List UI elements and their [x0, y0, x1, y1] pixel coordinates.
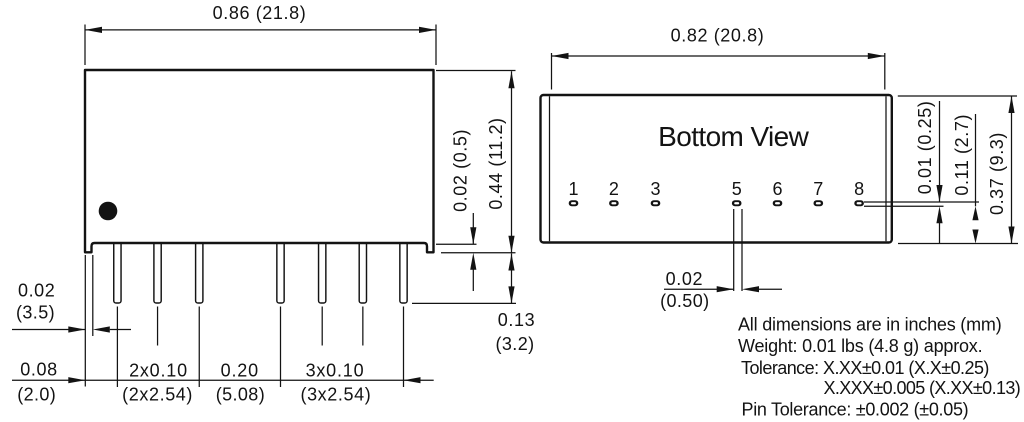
svg-text:(5.08): (5.08): [216, 384, 265, 404]
svg-text:0.02: 0.02: [666, 269, 703, 289]
solder pads: [569, 200, 579, 206]
svg-text:Weight: 0.01 lbs (4.8 g) appro: Weight: 0.01 lbs (4.8 g) approx.: [738, 336, 982, 356]
svg-text:All dimensions are in inches (: All dimensions are in inches (mm): [738, 315, 1002, 335]
svg-text:0.82 (20.8): 0.82 (20.8): [671, 25, 765, 45]
svg-text:(2x2.54): (2x2.54): [122, 384, 193, 404]
package body outline (side view): [85, 70, 434, 252]
dim 0.01 (0.25) arrows: [939, 101, 941, 202]
svg-text:(3.5): (3.5): [16, 302, 55, 322]
svg-text:2: 2: [609, 179, 619, 199]
dim 0.82 extension line right: [884, 53, 886, 90]
svg-text:0.44 (11.2): 0.44 (11.2): [486, 117, 506, 209]
svg-text:0.02: 0.02: [18, 280, 55, 300]
svg-text:X.XXX±0.005 (X.XX±0.13): X.XXX±0.005 (X.XX±0.13): [824, 378, 1021, 398]
svg-text:0.86 (21.8): 0.86 (21.8): [213, 3, 307, 23]
dim 0.02 (3.5) line with arrows: [12, 329, 85, 331]
svg-text:0.08: 0.08: [20, 359, 57, 379]
extension line package top right: [436, 70, 516, 72]
svg-text:3: 3: [650, 179, 660, 199]
extension line bottom view bottom right: [898, 243, 1018, 245]
dim 0.13 (3.2) arrows: [511, 254, 513, 304]
bottom view body outline: [541, 95, 892, 243]
pin centre extension lines: [116, 307, 118, 388]
dim 0.37 (9.3) line with arrows: [1011, 96, 1013, 244]
bottom chained dimension line: [12, 379, 404, 381]
svg-text:0.20: 0.20: [221, 360, 259, 380]
svg-text:0.13: 0.13: [498, 310, 535, 330]
extension line foot right edge down: [92, 255, 94, 336]
svg-text:5: 5: [732, 179, 742, 199]
extension line seating plane: [441, 252, 516, 254]
extension line bottom view top right: [898, 95, 1017, 97]
pad 5 extension line right: [741, 209, 743, 291]
bottom view inner wall line right: [885, 96, 887, 241]
svg-text:(3.2): (3.2): [495, 334, 534, 354]
svg-text:(2.0): (2.0): [17, 384, 56, 404]
svg-text:(3x2.54): (3x2.54): [300, 384, 371, 404]
dim 0.86 extension line left: [84, 25, 86, 66]
svg-text:2x0.10: 2x0.10: [129, 360, 188, 380]
svg-text:8: 8: [854, 179, 864, 199]
svg-text:3x0.10: 3x0.10: [306, 360, 365, 380]
extension line pin tips: [412, 302, 516, 304]
pin 1 indicator dot: [99, 202, 118, 221]
svg-text:0.01 (0.25): 0.01 (0.25): [915, 101, 935, 195]
extension line package bottom right: [436, 243, 477, 245]
svg-text:0.02 (0.5): 0.02 (0.5): [451, 129, 471, 212]
svg-text:6: 6: [772, 179, 782, 199]
dim 0.82 extension line left: [551, 53, 553, 90]
svg-text:0.11 (2.7): 0.11 (2.7): [952, 114, 972, 196]
svg-text:Tolerance: X.XX±0.01 (X.X±0.25: Tolerance: X.XX±0.01 (X.X±0.25): [741, 358, 989, 378]
dim 0.82 line with arrows: [552, 55, 885, 57]
extension line package left edge down: [84, 255, 86, 387]
svg-text:7: 7: [813, 179, 823, 199]
svg-text:(0.50): (0.50): [660, 291, 709, 311]
pad 5 extension line left: [733, 209, 735, 291]
pad 8 leader line bottom: [864, 205, 944, 207]
svg-text:Pin Tolerance: ±0.002 (±0.05): Pin Tolerance: ±0.002 (±0.05): [742, 400, 969, 420]
dim 0.02 (0.50) line with arrows: [664, 288, 734, 290]
dim 0.02 (0.5) arrows: [472, 213, 474, 244]
dim 0.11 (2.7) arrows: [975, 114, 977, 206]
svg-text:1: 1: [568, 179, 578, 199]
dim 0.86 extension line right: [435, 25, 437, 66]
svg-text:0.37 (9.3): 0.37 (9.3): [987, 132, 1007, 215]
dim 0.86 line with arrows: [85, 29, 436, 31]
dim 0.44 (11.2) line with arrows: [511, 71, 513, 253]
pad 8 leader line top: [864, 201, 979, 203]
bottom view inner wall line left: [549, 96, 551, 241]
pin leads (side view): [114, 239, 121, 303]
svg-text:Bottom View: Bottom View: [658, 121, 809, 152]
